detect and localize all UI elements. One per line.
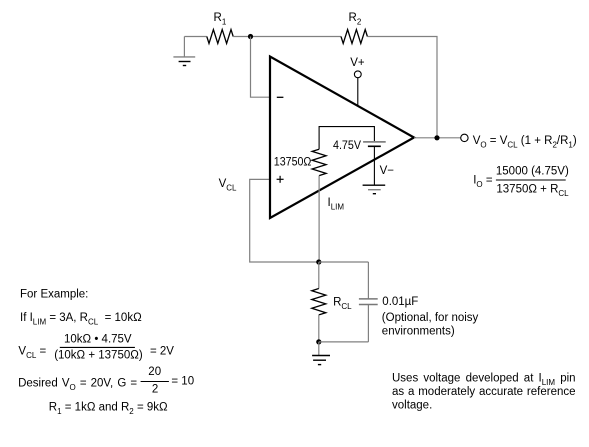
svg-text:V−: V− (380, 165, 395, 177)
svg-text:= 10: = 10 (171, 376, 194, 388)
ground G2 (V-) (363, 185, 386, 194)
node C (output) (434, 135, 439, 140)
svg-text:environments): environments) (382, 326, 455, 338)
svg-text:2: 2 (152, 383, 158, 395)
op-amp U1 (270, 57, 414, 219)
V+ terminal circle (354, 71, 361, 78)
svg-text:as a moderately accurate refer: as a moderately accurate reference (392, 386, 576, 398)
svg-text:ILIM: ILIM (328, 197, 345, 212)
minus input symbol (277, 96, 284, 98)
svg-text:If ILIM = 3A, RCL = 10kΩ: If ILIM = 3A, RCL = 10kΩ (20, 312, 142, 327)
wire node A down to inverting input (251, 37, 270, 98)
capacitor C1 plates (359, 299, 378, 305)
svg-text:VO = VCL (1 + R2/R1): VO = VCL (1 + R2/R1) (473, 135, 577, 150)
resistor R1 (207, 30, 233, 44)
formula IO fraction bar (496, 179, 566, 181)
wire ground to R1 (184, 36, 206, 38)
svg-text:Desired VO = 20V, G =: Desired VO = 20V, G = (18, 377, 137, 392)
svg-text:V+: V+ (350, 57, 365, 69)
ground G3 (bottom) (312, 342, 330, 365)
svg-text:(Optional, for noisy: (Optional, for noisy (382, 312, 479, 324)
svg-text:10kΩ • 4.75V: 10kΩ • 4.75V (64, 334, 132, 346)
battery 4.75V plate + (363, 141, 386, 143)
node B (ILIM junction) (316, 259, 321, 264)
svg-text:R1: R1 (214, 12, 227, 27)
svg-text:VCL =: VCL = (18, 346, 46, 361)
svg-text:R2: R2 (349, 12, 362, 27)
svg-text:Uses voltage developed at ILIM: Uses voltage developed at ILIM pin (392, 372, 576, 387)
svg-text:IO =: IO = (473, 175, 493, 190)
wire VCL to non-inverting input (250, 179, 319, 262)
svg-text:15000 (4.75V): 15000 (4.75V) (496, 165, 569, 177)
svg-text:VCL: VCL (219, 178, 237, 193)
node A (inverting input junction) (248, 34, 253, 39)
wire output (apex to terminal) (414, 137, 461, 139)
V+ pin stub (357, 78, 359, 107)
svg-text:For Example:: For Example: (20, 288, 88, 300)
svg-text:RCL: RCL (333, 296, 352, 311)
svg-text:20: 20 (148, 366, 161, 378)
resistor 13750ohm (312, 149, 326, 175)
internal feed wire (resistor top to battery top) (319, 127, 374, 150)
wire battery to V- ground (373, 146, 375, 185)
ground G1 (top left) (173, 37, 195, 66)
svg-text:13750Ω: 13750Ω (274, 156, 312, 168)
svg-text:4.75V: 4.75V (333, 140, 361, 152)
capacitor branch wires (319, 262, 369, 342)
wire R2 to output node (367, 37, 437, 138)
node D (ground junction) (316, 339, 321, 344)
svg-text:R1 = 1kΩ and R2 = 9kΩ: R1 = 1kΩ and R2 = 9kΩ (49, 402, 168, 417)
output terminal circle (461, 134, 468, 141)
wire R1 to R2 (233, 36, 341, 38)
svg-text:(10kΩ + 13750Ω): (10kΩ + 13750Ω) (54, 349, 143, 361)
svg-text:voltage.: voltage. (392, 400, 432, 412)
G fraction bar (141, 381, 169, 383)
wire ILIM (resistor bottom through hypotenuse to node) (318, 176, 320, 262)
svg-text:= 2V: = 2V (150, 346, 174, 358)
plus input symbol (277, 176, 284, 183)
svg-text:0.01µF: 0.01µF (382, 296, 418, 308)
battery 4.75V plate - (368, 145, 381, 147)
wire node B to RCL (318, 262, 320, 289)
resistor R2 (341, 30, 367, 44)
resistor RCL (312, 289, 326, 315)
svg-text:13750Ω + RCL: 13750Ω + RCL (496, 183, 569, 198)
wire RCL to node D (318, 315, 320, 342)
VCL equation fraction bar (60, 346, 135, 348)
